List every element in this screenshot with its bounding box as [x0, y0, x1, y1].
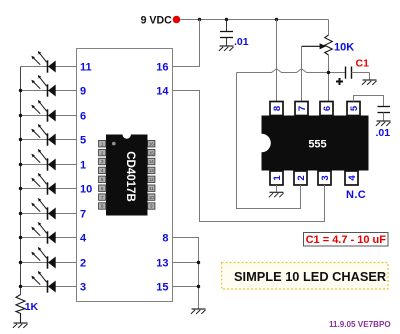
polarity + sign [336, 78, 343, 85]
DIP pin 11 [148, 185, 155, 191]
svg-text:.01: .01 [234, 36, 249, 48]
DIP tiny pin numbers [101, 141, 154, 208]
555 pin 1 box [270, 171, 283, 185]
resistor R1 1K [16, 295, 25, 323]
svg-text:.01: .01 [376, 127, 391, 139]
wire: 555 pin 3 to CD4017 pin 14 [173, 91, 325, 222]
junction dots on cathode bus [19, 89, 22, 288]
potentiometer R2 10K [302, 35, 333, 55]
junction dot rail/pin8 [275, 18, 278, 21]
ground (below C2) [219, 46, 234, 51]
svg-text:1: 1 [272, 175, 283, 181]
svg-text:5: 5 [349, 105, 360, 111]
555 pin 3 box [318, 171, 331, 185]
wire: 555 pin 1 to ground [276, 185, 278, 192]
wire: LED row pin 10 [21, 188, 77, 190]
wire: pin 13 stub [173, 262, 199, 264]
svg-text:1: 1 [80, 160, 86, 172]
LED D7 [31, 198, 55, 220]
svg-text:10: 10 [149, 195, 154, 200]
DIP pin 14 [148, 158, 155, 164]
svg-text:9 VDC: 9 VDC [141, 15, 173, 27]
wire: LED row pin 7 [21, 213, 77, 215]
junction dot node/pin6 [327, 71, 330, 74]
ground (below R1) [13, 323, 28, 328]
svg-text:13: 13 [156, 258, 168, 270]
svg-text:15: 15 [149, 150, 154, 155]
DIP pin 6 [99, 185, 106, 191]
svg-text:4: 4 [80, 233, 87, 245]
svg-text:N.C: N.C [346, 189, 366, 201]
svg-text:14: 14 [156, 86, 169, 98]
555 pin 4 box [345, 171, 358, 185]
LED D2 [31, 75, 55, 97]
ground (555 pin 1) [269, 192, 284, 197]
wire: wiper to 555 pin 7 [301, 46, 303, 101]
svg-text:13: 13 [149, 168, 154, 173]
svg-text:10K: 10K [334, 42, 354, 54]
svg-text:1K: 1K [25, 301, 39, 313]
wire: 10K bottom to pin 6 node [328, 55, 330, 102]
svg-text:8: 8 [272, 106, 283, 111]
svg-text:6: 6 [322, 106, 333, 111]
svg-text:555: 555 [308, 139, 326, 151]
svg-text:16: 16 [149, 141, 154, 146]
wire: 555 pin 5 to bypass cap C3 [354, 96, 384, 107]
555 pin 5 box [347, 102, 360, 116]
LED D6 [31, 173, 55, 195]
LED D4 [31, 124, 55, 146]
svg-text:C1: C1 [356, 58, 370, 70]
555 pin 6 box [320, 102, 333, 116]
wire: LED row pin 6 [21, 115, 77, 117]
wire: LED row pin 1 [21, 164, 77, 166]
DIP pin 10 [148, 194, 155, 200]
svg-text:C1 = 4.7 - 10 uF: C1 = 4.7 - 10 uF [306, 234, 387, 246]
DIP pin 8 [99, 203, 106, 209]
ground (right of C1) [362, 80, 377, 85]
wire: 555 pin 8 to rail [276, 20, 278, 102]
svg-text:8: 8 [162, 233, 168, 245]
DIP pin 7 [99, 194, 106, 200]
capacitor C1 (polarized) [346, 67, 370, 80]
svg-text:7: 7 [297, 106, 308, 111]
wire: 9V rail [180, 19, 328, 21]
IC U2 CD4017B DIP package [106, 135, 148, 216]
capacitor C2 .01 bypass [220, 20, 233, 46]
svg-text:11.9.05 VE7BPO: 11.9.05 VE7BPO [329, 320, 391, 329]
wire: pin 15 stub [173, 286, 199, 288]
DIP pin 16 [148, 141, 155, 147]
CD4017 outer box U2 [77, 49, 173, 302]
wire: LED row pin 2 [21, 262, 77, 264]
DIP pin 5 [99, 176, 106, 182]
wire: LED row pin 4 [21, 237, 77, 239]
wire: LED row pin 5 [21, 139, 77, 141]
svg-text:11: 11 [149, 186, 154, 191]
LED D10 [31, 271, 55, 293]
note box C1 value [304, 233, 389, 247]
555 pin 8 box [270, 102, 283, 116]
title box SIMPLE 10 LED CHASER [222, 263, 389, 290]
DIP pin 1 [99, 141, 106, 147]
LED D5 [31, 149, 55, 171]
svg-text:11: 11 [80, 62, 92, 74]
DIP pin 13 [148, 167, 155, 173]
wire: LED row pin 11 [21, 66, 77, 68]
svg-text:SIMPLE 10 LED CHASER: SIMPLE 10 LED CHASER [234, 269, 386, 284]
svg-text:3: 3 [80, 282, 86, 294]
555 pin 7 box [295, 102, 308, 116]
capacitor C3 .01 [378, 107, 391, 121]
LED D3 [31, 100, 55, 122]
DIP pin 3 [99, 158, 106, 164]
ground (CD4017 pins 8/13/15) [191, 309, 206, 314]
power terminal dot [173, 16, 181, 24]
wire: cathode bus [20, 67, 22, 295]
svg-text:2: 2 [296, 175, 307, 180]
DIP pin 12 [148, 176, 155, 182]
junction dot rail/bypass cap [225, 18, 228, 21]
ground (below C3) [376, 121, 391, 126]
svg-text:CD4017B: CD4017B [124, 151, 136, 202]
DIP pin 4 [99, 167, 106, 173]
wire: pin2/6 node line with hops [237, 69, 346, 73]
IC U1 555 body [262, 116, 369, 171]
LED D8 [31, 222, 55, 244]
555 pin 2 box [294, 171, 307, 185]
DIP pin 15 [148, 149, 155, 155]
junction dot pin13 [197, 261, 200, 264]
wire: LED row pin 3 [21, 286, 77, 288]
DIP pin 9 [148, 203, 155, 209]
svg-text:3: 3 [320, 175, 331, 180]
wire: LED row pin 9 [21, 90, 77, 92]
svg-text:10: 10 [80, 184, 92, 196]
555 pin numbers [272, 105, 360, 181]
junction dot pin15 [197, 285, 200, 288]
svg-text:12: 12 [149, 177, 154, 182]
LED D9 [31, 247, 55, 269]
svg-text:9: 9 [80, 86, 86, 98]
wire: CD4017 pin 8 to ground rail [173, 238, 199, 309]
svg-text:2: 2 [80, 258, 86, 270]
junction dot rail/pin16 [198, 18, 201, 21]
LED D1 [31, 51, 55, 73]
wire: pin 16 to 9V rail [173, 20, 200, 67]
svg-text:15: 15 [156, 282, 168, 294]
svg-text:6: 6 [80, 111, 86, 123]
DIP pin 2 [99, 149, 106, 155]
wire: rail corner down to 10K [328, 20, 330, 36]
svg-text:7: 7 [80, 209, 86, 221]
svg-text:5: 5 [80, 135, 86, 147]
svg-text:4: 4 [347, 175, 358, 181]
svg-text:16: 16 [156, 62, 168, 74]
svg-text:14: 14 [149, 159, 154, 164]
wire: pin 2 route to node [237, 73, 301, 209]
